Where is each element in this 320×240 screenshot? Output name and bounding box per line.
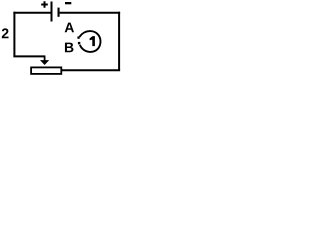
- rheostat R body: [31, 67, 61, 74]
- wire top-right segment: [60, 12, 121, 14]
- callout 1 circular arrow arc: [79, 31, 100, 52]
- label + (battery positive): [41, 1, 48, 8]
- battery B1 positive long plate: [51, 2, 53, 22]
- rheostat slider arrow stem: [44, 56, 46, 61]
- node A: [65, 23, 74, 33]
- node label 2 (left wire): [2, 28, 9, 38]
- wire left vertical: [13, 12, 15, 57]
- callout 1 arrow tick upper: [77, 37, 79, 39]
- battery B1 negative short plate: [58, 8, 60, 17]
- callout label 1: [90, 36, 95, 46]
- label - (battery negative): [65, 2, 71, 4]
- callout 1 arrow tick lower: [78, 42, 80, 45]
- wire lower-left horizontal to slider: [13, 55, 45, 57]
- wire top-left segment: [13, 12, 51, 14]
- rheostat slider arrowhead: [40, 60, 49, 65]
- wire bottom-right segment: [62, 69, 120, 71]
- node B: [65, 43, 74, 53]
- wire right vertical: [118, 12, 120, 70]
